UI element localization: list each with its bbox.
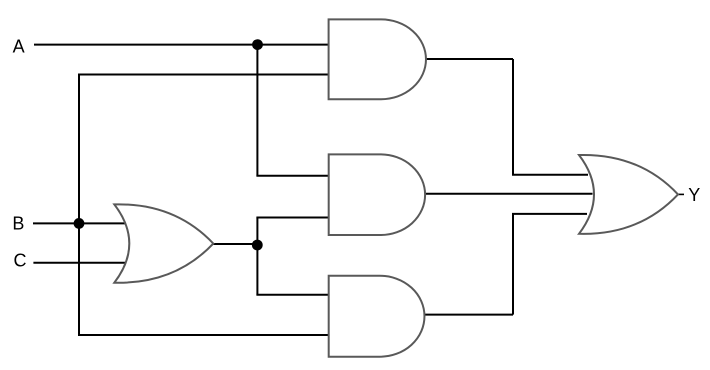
wire: AND gate G1 output horizontal xyxy=(426,58,513,60)
wire: horizontal into OR gate G5 first input xyxy=(512,174,588,176)
svg-text:Y: Y xyxy=(688,185,700,205)
wire: AND gate G2 output straight into OR gate G5 second input xyxy=(425,193,592,195)
wire: vertical from node D down to G3 first input level xyxy=(256,245,258,295)
wire: vertical up from G3 output to OR gate G5 third input level xyxy=(512,214,514,315)
node A junction dot xyxy=(252,39,263,50)
wire: OR gate G5 output stub to Y xyxy=(678,193,684,195)
OR gate G4 (inputs B,C) xyxy=(114,204,213,282)
AND gate G3 (bottom) xyxy=(329,276,425,357)
wire: vertical from node B up to G1 and down to G3 input level xyxy=(78,75,80,336)
wire: input A horizontal to AND gate G1 xyxy=(34,44,329,46)
AND gate G1 (top) xyxy=(329,19,426,99)
wire: OR gate G4 output to node D xyxy=(213,243,257,245)
node D junction dot (OR output) xyxy=(252,240,263,251)
wire: horizontal into AND gate G3 second input xyxy=(78,334,329,336)
svg-text:A: A xyxy=(13,36,25,56)
wire: AND gate G3 output horizontal xyxy=(425,314,514,316)
wire: vertical from node A down to G2 first input level xyxy=(256,45,258,176)
wire: vertical down from G1 output to OR gate G5 first input level xyxy=(512,59,514,175)
wire: input C horizontal to OR gate G4 xyxy=(33,262,125,264)
wire: horizontal into AND gate G2 first input xyxy=(256,175,329,177)
wire: horizontal into AND gate G2 second input xyxy=(256,217,329,219)
wire: input B horizontal to OR gate G4 xyxy=(33,222,126,224)
svg-text:B: B xyxy=(12,213,24,233)
AND gate G2 (middle) xyxy=(329,154,425,235)
wire: horizontal into AND gate G1 second input xyxy=(78,74,329,76)
wire: horizontal into AND gate G3 first input xyxy=(256,294,329,296)
svg-text:C: C xyxy=(14,251,27,271)
node B junction dot xyxy=(74,218,85,229)
wire: horizontal into OR gate G5 third input xyxy=(512,213,587,215)
wire: vertical from node D up to G2 second input level xyxy=(256,218,258,246)
OR gate G5 (output Y) xyxy=(579,155,678,234)
